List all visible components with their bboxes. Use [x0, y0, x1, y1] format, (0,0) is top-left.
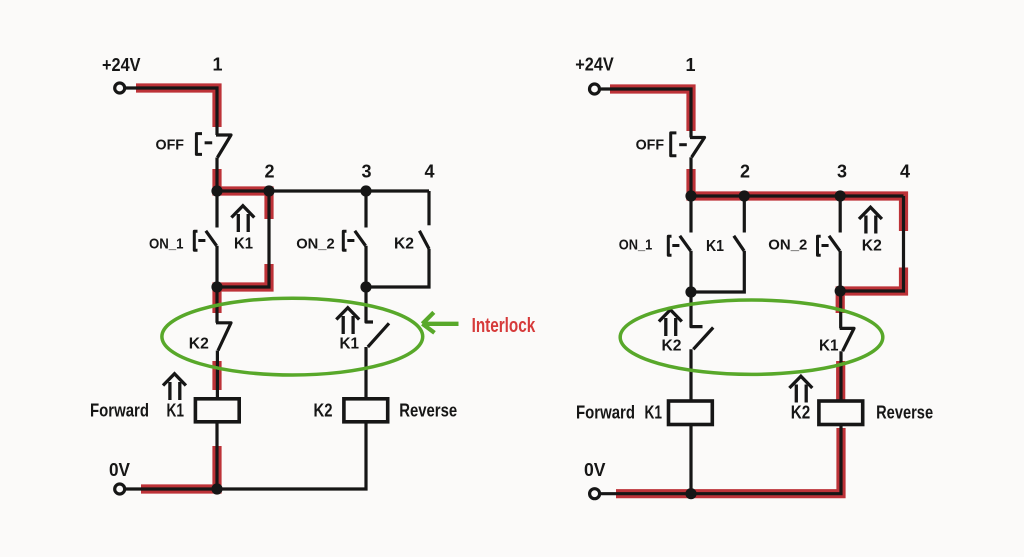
- svg-text:3: 3: [837, 162, 847, 182]
- wire highlight: OFF to rail 2 and through K1 latch branch top: [217, 169, 269, 219]
- ON_2 moving blade: [829, 236, 840, 251]
- svg-text:ON_1: ON_1: [619, 237, 653, 254]
- svg-text:K1: K1: [819, 338, 839, 355]
- wire: coil K1 to 0V rail: [215, 422, 218, 489]
- pushbutton ON_1 (NO contact, open) top terminal: [689, 196, 692, 233]
- wire: OFF to node 1 row: [689, 157, 692, 196]
- ON_2 moving blade: [355, 231, 366, 246]
- svg-text:Forward: Forward: [90, 401, 149, 421]
- terminal 0V: [115, 484, 125, 494]
- contact K1 auxiliary (closed, latching) branch: [217, 191, 269, 287]
- pushbutton ON_2 (NO contact, released) top terminal: [364, 191, 367, 228]
- node 1 junction: [211, 185, 222, 196]
- wire highlight: +24V rail into node 1 (red current path): [136, 88, 217, 127]
- node 3 junction: [835, 190, 846, 201]
- svg-text:1: 1: [686, 55, 696, 75]
- svg-text:K2: K2: [189, 336, 209, 353]
- wire: +24V feed to OFF button: [126, 88, 217, 135]
- energized marker arrow for K2 aux contact: [859, 207, 882, 233]
- energized marker arrow for coil K2: [789, 376, 812, 402]
- wire highlight: K1 latch branch bottom into interlock K2: [217, 264, 269, 313]
- node 1 junction: [685, 190, 696, 201]
- node 2 junction: [263, 185, 274, 196]
- OFF actuator bracket: [196, 134, 202, 155]
- svg-text:+24V: +24V: [575, 55, 614, 75]
- wire highlight: +24V rail into node 1 (red current path): [610, 89, 691, 131]
- wire: ON_2 bottom terminal: [364, 246, 367, 287]
- wire: coil K1 to 0V rail: [689, 425, 692, 494]
- svg-text:OFF: OFF: [156, 137, 185, 154]
- contact K2 auxiliary (open) branch: [427, 191, 430, 225]
- energized marker arrow for interlock K2: [659, 310, 682, 336]
- K2 aux moving blade (open): [419, 231, 429, 249]
- pushbutton OFF (NC contact, closed): [690, 138, 705, 158]
- wire: bus rail nodes 1-2-3-4: [217, 189, 429, 192]
- ON_2 actuator dashed link: [347, 239, 354, 242]
- wire: bus rail nodes 1-2-3-4: [691, 194, 904, 197]
- svg-text:+24V: +24V: [102, 55, 141, 75]
- ON_1 actuator dashed link: [672, 244, 679, 247]
- energized marker arrow for interlock K1: [336, 308, 359, 334]
- svg-text:ON_1: ON_1: [149, 236, 184, 253]
- ON_2 actuator bracket: [818, 236, 821, 255]
- svg-text:Reverse: Reverse: [876, 403, 933, 423]
- svg-text:K1: K1: [340, 336, 360, 353]
- wire: ON_1 bottom terminal: [689, 251, 692, 292]
- energized marker arrow for K1 contact: [231, 206, 254, 232]
- node 3 junction: [360, 185, 371, 196]
- terminal 0V: [590, 489, 600, 499]
- labels left circuit: [90, 55, 457, 481]
- terminal +24V: [115, 83, 125, 93]
- wire highlight: interlock K1 to coil K2: [836, 361, 845, 401]
- wire: ON_2 bottom terminal: [839, 251, 842, 291]
- wire: +24V feed to OFF button: [601, 89, 691, 138]
- OFF actuator dashed link: [205, 141, 213, 144]
- pushbutton ON_1 (NO contact, released) top terminal: [215, 191, 218, 228]
- pushbutton OFF (NC contact, closed): [216, 135, 231, 158]
- energized marker arrow for coil K1: [163, 374, 186, 400]
- svg-text:OFF: OFF: [636, 137, 665, 154]
- svg-text:K2: K2: [791, 403, 811, 423]
- ON_1 actuator bracket: [194, 231, 197, 250]
- svg-text:0V: 0V: [109, 460, 130, 480]
- wire highlight: OFF through rail to K2 aux branch: [691, 169, 904, 231]
- wire highlight: coil K2 to 0V rail: [616, 428, 841, 494]
- svg-text:Forward: Forward: [576, 403, 635, 423]
- wire: OFF to node 1 row: [215, 158, 218, 192]
- ON_1 moving blade: [206, 231, 217, 246]
- K1 aux moving blade (open): [734, 236, 744, 251]
- contact K2 auxiliary (closed, latching) branch: [840, 196, 903, 291]
- svg-text:1: 1: [213, 55, 223, 75]
- interlock contact K1 (NC, closed): [840, 291, 854, 401]
- ON_1 actuator bracket: [668, 236, 671, 255]
- OFF actuator dashed link: [679, 143, 687, 146]
- svg-text:K1: K1: [167, 401, 185, 421]
- junction ON_1/K1 branch: [685, 286, 696, 297]
- wire highlight: interlock K2 to coil K1: [212, 361, 221, 390]
- svg-text:ON_2: ON_2: [768, 237, 807, 254]
- svg-text:Reverse: Reverse: [399, 401, 457, 421]
- interlock pointer arrow: [422, 312, 458, 332]
- node junction dots: [685, 190, 845, 499]
- interlock contact K1 (NC, forced open): [366, 287, 389, 399]
- wire: coil K2 to 0V rail: [601, 425, 842, 494]
- coil K2 (Reverse contactor): [819, 401, 863, 425]
- svg-text:2: 2: [740, 162, 750, 182]
- svg-text:4: 4: [425, 162, 435, 182]
- svg-text:K1: K1: [234, 236, 253, 253]
- ON_2 actuator bracket: [343, 231, 346, 250]
- contact K1 auxiliary (open) branch: [743, 196, 746, 233]
- junction ON_2/K2 branch: [835, 285, 846, 296]
- svg-text:4: 4: [900, 162, 910, 182]
- svg-text:ON_2: ON_2: [296, 236, 335, 253]
- wire: ON_1 bottom terminal: [215, 246, 218, 287]
- svg-text:K2: K2: [862, 238, 882, 255]
- pushbutton ON_2 (NO contact, released) top terminal: [839, 196, 842, 233]
- svg-text:K1: K1: [645, 403, 663, 423]
- coil K1 (Forward contactor): [669, 401, 713, 425]
- OFF actuator bracket: [671, 133, 677, 156]
- junction ON_1/K1 branch: [211, 281, 222, 292]
- svg-text:K2: K2: [662, 338, 682, 355]
- wire: K2 aux bottom return to ON_2 branch: [366, 249, 429, 287]
- svg-text:0V: 0V: [584, 460, 606, 480]
- wire: K1 aux bottom return: [691, 251, 744, 292]
- wire highlight: K2 aux bottom into interlock K1: [840, 268, 903, 314]
- interlock highlight ellipse: [162, 298, 423, 375]
- svg-text:2: 2: [265, 162, 275, 182]
- ON_2 actuator dashed link: [822, 244, 829, 247]
- labels right circuit: [575, 55, 933, 481]
- wire highlight: coil K1 to 0V rail: [141, 446, 217, 489]
- svg-text:Interlock: Interlock: [472, 315, 536, 337]
- interlock contact K2 (NC, closed): [216, 287, 231, 399]
- svg-text:K1: K1: [706, 238, 724, 255]
- wire: coil K2 to 0V rail: [126, 422, 367, 489]
- ON_1 actuator dashed link: [198, 239, 205, 242]
- ON_1 moving blade: [680, 236, 691, 251]
- junction 0V rail: [211, 483, 222, 494]
- interlock contact K2 (NC, forced open): [691, 292, 713, 401]
- junction ON_2/K2 branch: [360, 281, 371, 292]
- coil K1 (Forward contactor): [195, 399, 239, 422]
- node junction dots: [211, 185, 371, 494]
- junction 0V rail: [685, 488, 696, 499]
- node 2 junction: [739, 190, 750, 201]
- svg-text:K2: K2: [394, 236, 414, 253]
- interlock highlight ellipse: [620, 300, 883, 374]
- terminal +24V: [590, 84, 600, 94]
- coil K2 (Reverse contactor): [344, 399, 388, 422]
- svg-text:K2: K2: [314, 401, 333, 421]
- svg-text:3: 3: [362, 162, 372, 182]
